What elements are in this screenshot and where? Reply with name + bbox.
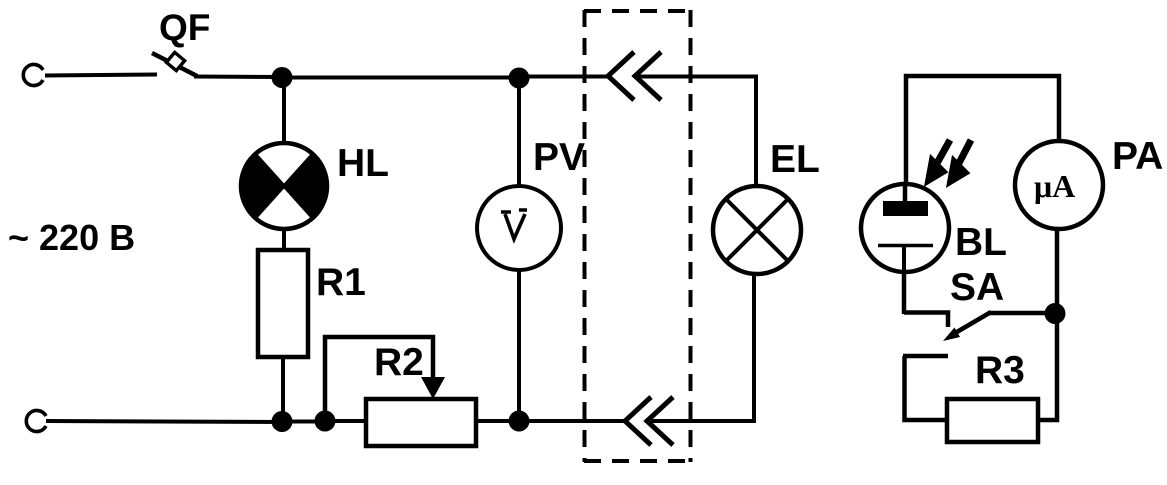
wire node B to top connector — [519, 75, 609, 79]
rheostat R2 body — [366, 399, 476, 446]
dashed enclosure bottom side — [584, 459, 691, 463]
terminal X2 (bottom left input) — [26, 411, 46, 432]
dashed enclosure right side — [689, 10, 693, 462]
switch SA blade arrowhead — [943, 328, 960, 342]
wire R3 up to node F — [1038, 313, 1057, 420]
wire node E to bottom connector — [519, 419, 626, 423]
svg-text:SA: SA — [950, 266, 1004, 309]
R2 wiper wire — [325, 337, 433, 421]
R2 wiper arrowhead — [421, 377, 445, 399]
svg-text:EL: EL — [770, 138, 820, 181]
switch SA lower throw stub — [903, 354, 948, 359]
wire R1 down to node C — [281, 357, 285, 422]
wire SA lower throw down to R3 — [905, 356, 948, 420]
wire node D to R2 — [325, 419, 368, 423]
lamp EL — [713, 186, 801, 274]
svg-text:BL: BL — [955, 221, 1007, 264]
switch SA blade — [950, 312, 991, 336]
connector chevrons bottom wire — [625, 397, 673, 445]
wire top connector to EL corner — [638, 77, 756, 188]
wire node C to node D — [282, 420, 325, 424]
lamp HL (indicator lamp, filled side quadrants) — [241, 143, 327, 229]
svg-text:R3: R3 — [975, 349, 1025, 392]
svg-text:PV: PV — [533, 136, 585, 179]
node E (junction dot bottom, PV branch) — [509, 411, 530, 432]
wire node B down to PV — [517, 78, 521, 187]
wire node A down to HL — [282, 77, 286, 143]
breaker QF blade — [152, 53, 197, 76]
terminal X1 (top left input) — [23, 65, 43, 86]
svg-text:~ 220 В: ~ 220 В — [8, 217, 135, 258]
wire PV down to node E — [517, 270, 521, 421]
light arrow 2 into BL — [948, 140, 971, 185]
dashed enclosure top side — [584, 9, 691, 13]
svg-text:R2: R2 — [374, 341, 424, 384]
node C (junction dot bottom, R1 branch) — [272, 411, 293, 432]
connector chevrons top wire — [608, 52, 661, 100]
switch SA fixed contact from BL — [904, 313, 948, 328]
node F (junction dot, PA/SA/R3) — [1045, 303, 1066, 324]
resistor R3 — [947, 399, 1038, 442]
wire top-left from X1 to QF — [45, 75, 157, 76]
wire R2 to node E — [476, 419, 519, 423]
photocell BL — [861, 182, 949, 273]
wire EL down to bottom connector — [645, 274, 754, 421]
wire HL to R1 — [282, 229, 286, 252]
wire node A to node B — [282, 76, 520, 80]
voltmeter PV — [477, 186, 561, 270]
wire bottom-left from X2 to node C — [46, 421, 282, 422]
dashed enclosure (screen) left side — [583, 10, 587, 462]
breaker QF cross symbol — [166, 52, 184, 70]
microammeter PA — [1015, 141, 1103, 229]
svg-text:μA: μA — [1034, 168, 1075, 204]
light arrow 1 into BL — [926, 140, 950, 184]
wire SA to node F — [989, 311, 1055, 316]
node D (junction dot bottom, R2 wiper branch) — [315, 411, 336, 432]
svg-text:HL: HL — [337, 142, 389, 185]
wire PA down to node F — [1055, 229, 1060, 314]
resistor R1 — [258, 250, 308, 357]
svg-text:QF: QF — [159, 7, 210, 48]
wire top rail of photocell circuit — [906, 76, 1059, 203]
wire BL down to SA — [902, 272, 907, 314]
node B (junction dot top, PV branch) — [509, 68, 530, 89]
node A (junction dot top, HL branch) — [272, 67, 293, 88]
svg-text:PA: PA — [1112, 135, 1163, 178]
wire QF to node A — [194, 75, 284, 80]
svg-text:R1: R1 — [316, 261, 366, 304]
